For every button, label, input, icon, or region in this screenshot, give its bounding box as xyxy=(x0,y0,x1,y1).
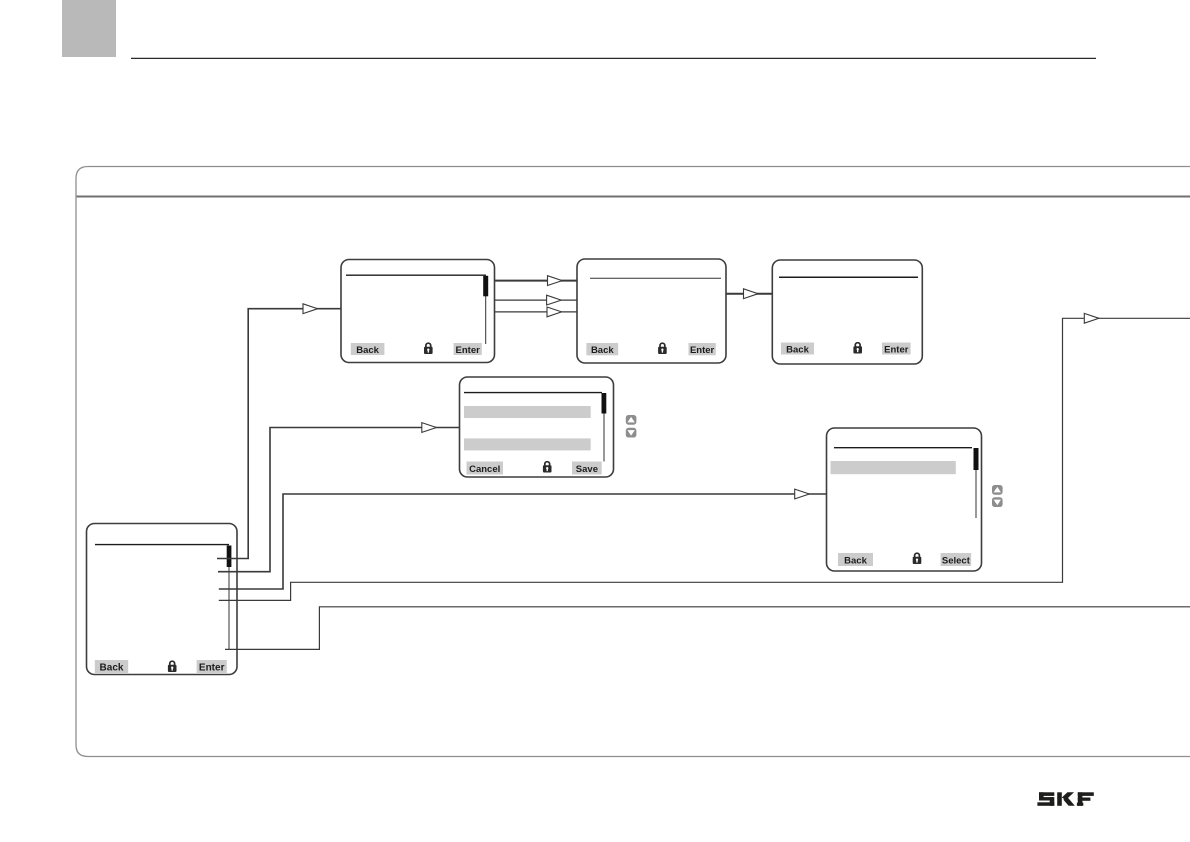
screen S5 scrollbar track xyxy=(975,448,977,518)
screen S5 title line xyxy=(834,447,972,449)
screen S3 lock icon xyxy=(853,343,862,354)
screen S3 frame xyxy=(772,260,922,364)
screen S4 Cancel button xyxy=(467,462,504,475)
arrow F2 xyxy=(547,295,562,305)
screen S0 scrollbar thumb xyxy=(227,546,232,568)
screen S5 lock icon xyxy=(913,553,922,564)
screen S5 Back button xyxy=(838,553,873,566)
arrow F1 xyxy=(548,276,563,286)
screen S1 Enter button xyxy=(454,343,482,355)
arrow off-page right xyxy=(1084,313,1099,323)
screen S1 scrollbar thumb xyxy=(483,276,488,297)
screen S5 scrollbar thumb xyxy=(974,448,979,470)
screen S2 Back button xyxy=(586,343,618,355)
screen S0 scrollbar track xyxy=(228,546,230,651)
screen S4 title line xyxy=(464,392,602,394)
svg-text:Back: Back xyxy=(356,345,379,356)
svg-text:Back: Back xyxy=(100,663,124,674)
arrow into S1 xyxy=(303,304,318,314)
screen S1 scrollbar track xyxy=(485,276,487,344)
arrow into S5 xyxy=(795,489,810,499)
screen S4 Save button xyxy=(572,462,602,475)
screen S3 Enter button xyxy=(882,343,911,355)
screen S4 scroll down key xyxy=(626,428,637,438)
screen S2 Enter button xyxy=(689,343,716,355)
screen S0 main menu frame xyxy=(87,524,238,675)
wire F2: S1 to S2 second item xyxy=(495,299,578,301)
SKF logo xyxy=(1037,792,1093,806)
arrow F3 xyxy=(547,307,562,317)
screen S4 lock icon xyxy=(543,462,552,473)
screen S0 lock icon xyxy=(168,661,177,672)
svg-text:Enter: Enter xyxy=(199,663,225,674)
arrow into S3 xyxy=(744,289,759,299)
wire B: main menu to S4 xyxy=(218,428,460,572)
svg-text:Back: Back xyxy=(786,344,809,355)
wire F3: S1 to S2 third item xyxy=(495,311,578,313)
wire F1: S1 to S2 first item xyxy=(495,280,578,282)
screen S1 lock icon xyxy=(424,343,433,354)
screen S5 scroll down key xyxy=(992,497,1003,507)
screen S0 title line xyxy=(95,544,229,546)
screen S4 highlighted row 2 xyxy=(464,438,591,450)
svg-text:Select: Select xyxy=(942,555,971,566)
svg-text:Enter: Enter xyxy=(690,345,715,356)
screen S5 frame xyxy=(827,428,982,571)
screen S4 scrollbar thumb xyxy=(602,393,607,414)
screen S3 Back button xyxy=(781,343,814,355)
svg-text:Cancel: Cancel xyxy=(469,464,500,475)
screen S2 lock icon xyxy=(658,343,667,354)
svg-text:Back: Back xyxy=(844,555,867,566)
wire E: main menu to off-page right bottom xyxy=(225,607,1190,650)
screen S3 title line xyxy=(779,276,918,278)
screen S4 scrollbar track xyxy=(603,393,605,462)
SKF letter S xyxy=(1039,792,1054,796)
svg-text:Back: Back xyxy=(591,345,614,356)
screen S5 highlighted row xyxy=(831,461,956,474)
screen S4 frame xyxy=(460,377,614,477)
svg-text:Enter: Enter xyxy=(884,344,909,355)
arrow into S4 xyxy=(422,423,437,433)
wire G: S2 to S3 xyxy=(726,293,772,295)
wire A: main menu to S1 xyxy=(217,309,341,559)
screen S0 Enter button xyxy=(197,660,227,673)
screen S4 scroll up key xyxy=(626,415,637,425)
SKF letter K xyxy=(1057,792,1062,806)
screen S2 frame xyxy=(577,259,726,363)
svg-text:Save: Save xyxy=(576,464,598,475)
SKF letter F xyxy=(1078,792,1094,796)
screen S1 title line xyxy=(346,274,486,276)
screen S5 scroll up key xyxy=(992,485,1003,495)
screen S2 title line xyxy=(590,277,721,279)
wire D: main menu to off-page right top xyxy=(219,318,1190,600)
panel title separator xyxy=(77,196,1190,198)
panel frame xyxy=(76,167,1190,757)
header chapter tab xyxy=(62,0,116,57)
screen S1 frame xyxy=(341,260,495,363)
wire C: main menu to S5 xyxy=(219,494,827,589)
screen S0 Back button xyxy=(95,660,128,673)
screen S5 Select button xyxy=(941,553,972,566)
screen S4 highlighted row 1 xyxy=(464,406,591,418)
screen S1 Back button xyxy=(351,343,385,355)
header rule xyxy=(131,57,1096,59)
svg-text:Enter: Enter xyxy=(456,345,481,356)
